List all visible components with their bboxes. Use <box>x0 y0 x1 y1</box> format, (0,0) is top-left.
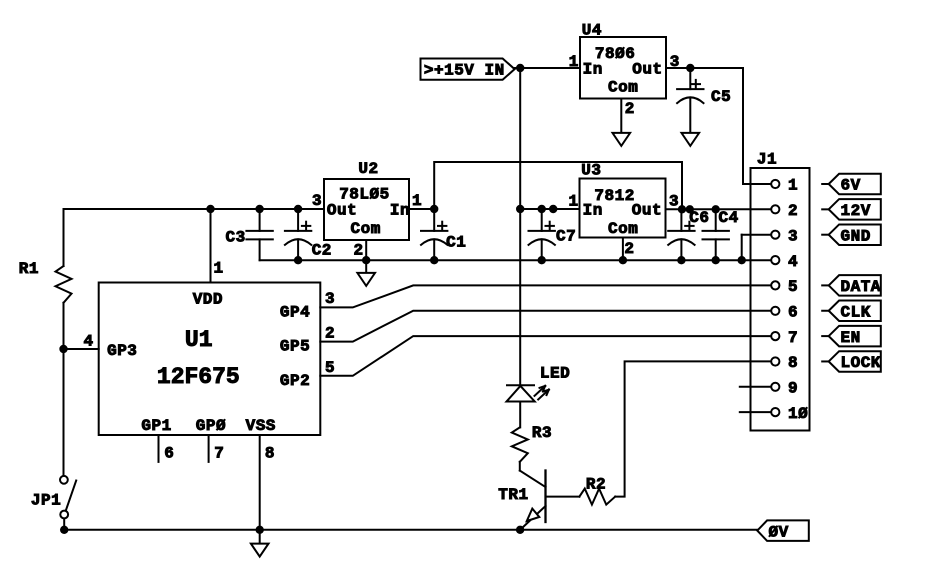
svg-text:GPØ: GPØ <box>196 417 226 435</box>
svg-text:4: 4 <box>788 253 798 271</box>
svg-text:DATA: DATA <box>841 278 881 296</box>
svg-text:R2: R2 <box>586 475 606 493</box>
svg-text:12F675: 12F675 <box>157 364 240 390</box>
svg-text:C1: C1 <box>446 234 466 252</box>
svg-text:C2: C2 <box>312 242 332 260</box>
svg-text:Com: Com <box>608 220 638 238</box>
svg-text:3: 3 <box>312 192 322 210</box>
svg-text:8: 8 <box>265 445 275 463</box>
svg-text:6: 6 <box>788 303 798 321</box>
svg-text:TR1: TR1 <box>498 486 528 504</box>
svg-text:GP5: GP5 <box>280 337 310 355</box>
svg-text:LED: LED <box>540 365 570 383</box>
svg-text:C7: C7 <box>556 228 576 246</box>
svg-text:Com: Com <box>351 220 381 238</box>
svg-text:EN: EN <box>841 329 861 347</box>
svg-text:In: In <box>583 61 603 79</box>
svg-text:2: 2 <box>325 325 335 343</box>
svg-text:U1: U1 <box>185 327 213 353</box>
svg-text:1: 1 <box>569 192 579 210</box>
svg-text:GP4: GP4 <box>280 303 310 321</box>
svg-text:2: 2 <box>624 240 634 258</box>
svg-text:2: 2 <box>625 100 635 118</box>
svg-text:1: 1 <box>412 192 422 210</box>
svg-text:>+15V IN: >+15V IN <box>424 62 505 80</box>
svg-text:In: In <box>390 202 410 220</box>
svg-text:Out: Out <box>327 202 357 220</box>
svg-text:7: 7 <box>214 445 224 463</box>
svg-text:R3: R3 <box>532 424 552 442</box>
svg-text:J1: J1 <box>757 150 777 168</box>
svg-text:VSS: VSS <box>246 417 276 435</box>
svg-text:1: 1 <box>788 177 798 195</box>
svg-text:JP1: JP1 <box>31 491 61 509</box>
svg-text:R1: R1 <box>19 260 39 278</box>
svg-text:CLK: CLK <box>841 303 871 321</box>
svg-text:C3: C3 <box>226 228 246 246</box>
svg-text:C5: C5 <box>711 88 731 106</box>
svg-text:U3: U3 <box>581 162 601 180</box>
svg-text:GP3: GP3 <box>107 342 137 360</box>
svg-text:6V: 6V <box>841 177 861 195</box>
svg-text:9: 9 <box>788 380 798 398</box>
svg-text:3: 3 <box>670 53 680 71</box>
svg-text:7: 7 <box>788 329 798 347</box>
svg-text:GP1: GP1 <box>141 417 171 435</box>
svg-text:3: 3 <box>325 290 335 308</box>
svg-text:C4: C4 <box>719 209 739 227</box>
svg-text:VDD: VDD <box>193 290 223 308</box>
svg-text:1: 1 <box>214 260 224 278</box>
svg-text:5: 5 <box>325 359 335 377</box>
svg-text:2: 2 <box>788 202 798 220</box>
svg-text:3: 3 <box>669 193 679 211</box>
svg-text:LOCK: LOCK <box>841 354 881 372</box>
svg-text:3: 3 <box>788 227 798 245</box>
svg-text:U4: U4 <box>582 22 602 40</box>
svg-text:GP2: GP2 <box>280 372 310 390</box>
svg-text:Out: Out <box>632 202 662 220</box>
svg-text:GND: GND <box>841 227 871 245</box>
svg-text:Com: Com <box>608 78 638 96</box>
svg-text:U2: U2 <box>358 160 378 178</box>
svg-text:C6: C6 <box>689 209 709 227</box>
svg-text:5: 5 <box>788 278 798 296</box>
svg-text:12V: 12V <box>841 202 871 220</box>
svg-text:1Ø: 1Ø <box>788 405 808 423</box>
svg-text:ØV: ØV <box>769 524 789 542</box>
svg-text:8: 8 <box>788 354 798 372</box>
svg-text:4: 4 <box>84 333 94 351</box>
svg-text:1: 1 <box>569 53 579 71</box>
svg-text:Out: Out <box>632 61 662 79</box>
svg-text:In: In <box>583 202 603 220</box>
svg-text:6: 6 <box>164 445 174 463</box>
svg-text:2: 2 <box>354 241 364 259</box>
